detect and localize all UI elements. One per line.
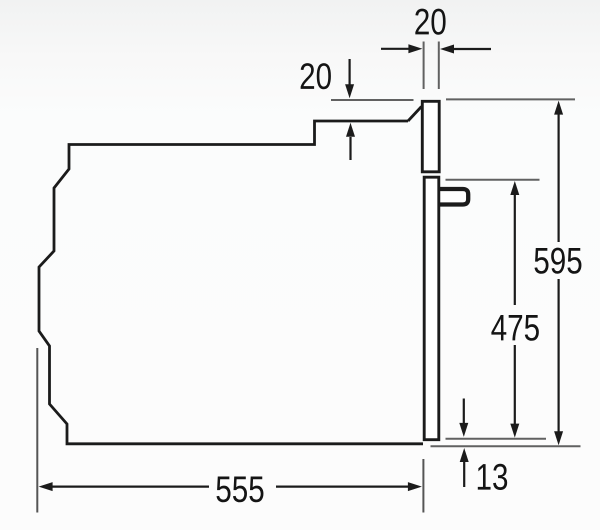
extension line: top of door (left segment) (331, 99, 414, 101)
dimension 555 horizontal line with arrows (39, 482, 422, 491)
extension line: handle top level (475 top) (446, 179, 540, 181)
dimension 13 up arrow (460, 448, 469, 487)
dimension 20 (top) left arrow (381, 44, 422, 53)
label 13 (478, 464, 507, 490)
dimension 20 (left) up arrow (346, 123, 355, 160)
door handle (439, 189, 468, 205)
label 20 (left) (301, 63, 331, 89)
dimension 595 vertical line with arrows (554, 101, 563, 446)
extension line: top of door (right segment) (446, 98, 575, 100)
extension line: top-20 left vertical (423, 42, 425, 90)
label 475 (491, 315, 538, 341)
extension line: door bottom level (13 top / 475 bottom) (446, 438, 547, 440)
dimension 20 (left) down arrow (345, 59, 354, 98)
extension line: 555 left vertical (36, 348, 38, 513)
extension line: 555 right vertical (422, 459, 424, 513)
dimension 475 vertical line with arrows (510, 181, 519, 438)
oven door panel (424, 177, 439, 440)
label 595 (534, 248, 581, 274)
control fascia strip (422, 101, 439, 172)
dimension 20 (top) right arrow (440, 45, 491, 54)
extension line: top-20 right vertical (438, 42, 440, 90)
label 555 (216, 476, 263, 502)
dimension 13 down arrow (459, 399, 468, 437)
oven top slope to fascia (408, 107, 422, 122)
extension line: oven bottom level (595 bottom) (431, 445, 581, 447)
label 20 (top) (415, 9, 445, 35)
oven body outline (39, 121, 423, 444)
